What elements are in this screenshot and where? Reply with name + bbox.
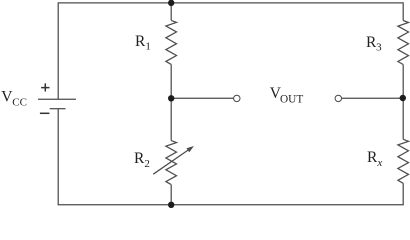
svg-text:CC: CC [12,97,27,109]
svg-text:OUT: OUT [280,93,303,105]
wire R1 bottom lead [170,64,172,98]
wire VOUT right terminal to node B [342,97,404,99]
VOUT left open terminal [234,95,240,101]
svg-text:R: R [367,149,378,166]
node junction dot bottom [168,202,174,208]
R2 arrowhead [187,146,195,152]
node junction dot top [168,0,174,6]
battery VCC bottom plate [50,108,66,110]
svg-text:R: R [134,150,145,167]
resistor R3 [398,21,409,65]
battery plus sign [41,83,49,91]
wire R3 bottom lead [402,65,404,140]
wire R2 bottom lead [170,185,172,205]
svg-text:2: 2 [144,158,150,170]
svg-text:3: 3 [376,42,382,54]
wire node to VOUT left terminal [171,97,233,99]
svg-text:1: 1 [145,41,151,53]
node A junction dot middle [168,95,174,101]
resistor R1 [166,20,177,64]
svg-text:R: R [135,33,146,50]
node B junction dot right [400,95,406,101]
resistor R2 [166,141,177,185]
svg-text:x: x [376,157,382,169]
wire top rail [58,3,403,99]
VOUT right open terminal [335,95,341,101]
R2 arrow shaft [153,149,189,174]
battery VCC top plate [38,98,76,100]
wire bottom rail [58,109,403,205]
wire R1 top lead [170,3,172,21]
resistor Rx [398,139,409,183]
battery minus sign [40,112,50,114]
wire R2 top lead [170,98,172,140]
